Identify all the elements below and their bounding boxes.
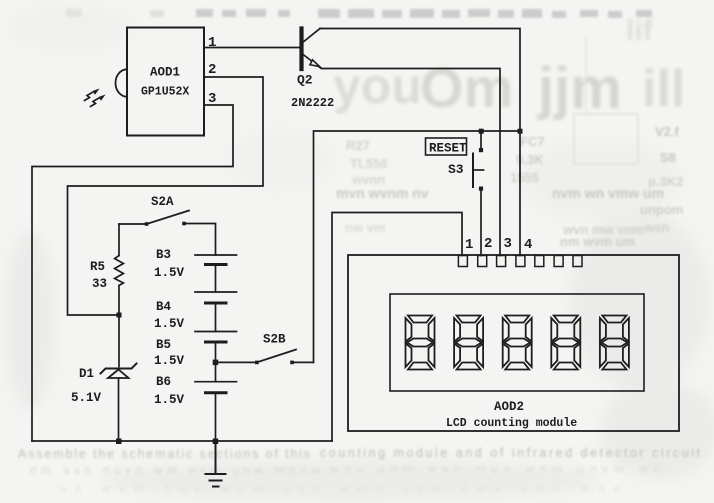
wire pin1 to Q2 base bbox=[204, 47, 300, 49]
LCD pin 5 bbox=[535, 256, 544, 267]
svg-text:LCD counting module: LCD counting module bbox=[446, 417, 577, 430]
svg-text:1.5V: 1.5V bbox=[154, 393, 185, 407]
svg-text:mvn wvnm nv: mvn wvnm nv bbox=[336, 185, 429, 201]
svg-text:wvn mw vnm: wvn mw vnm bbox=[562, 222, 644, 237]
battery B5 bbox=[195, 332, 237, 382]
svg-text:5.1V: 5.1V bbox=[71, 391, 102, 405]
svg-text:1: 1 bbox=[465, 237, 473, 253]
svg-text:R27: R27 bbox=[346, 138, 370, 153]
svg-text:RESET: RESET bbox=[429, 142, 467, 156]
RESET label bbox=[426, 138, 468, 156]
wire S2A to R5 bbox=[118, 224, 120, 256]
7-segment digit 5 bbox=[600, 316, 629, 370]
pin 3 label bbox=[208, 91, 216, 107]
LCD module AOD2 outer box bbox=[348, 255, 679, 431]
svg-text:FC7: FC7 bbox=[520, 134, 545, 149]
svg-text:B5: B5 bbox=[156, 338, 171, 352]
label LCD counting module bbox=[446, 417, 577, 430]
svg-text:3: 3 bbox=[504, 236, 512, 252]
IR receiver module AOD1 body bbox=[116, 28, 205, 136]
svg-text:33: 33 bbox=[92, 277, 107, 291]
svg-text:GP1U52X: GP1U52X bbox=[141, 86, 189, 99]
7-segment digit 1 bbox=[406, 316, 435, 370]
ground symbol bbox=[206, 441, 226, 487]
svg-text:nw vm: nw vm bbox=[345, 220, 385, 235]
svg-text:TL556: TL556 bbox=[350, 156, 388, 171]
7-segment digit 4 bbox=[551, 316, 580, 370]
label B3 1.5V bbox=[154, 248, 185, 280]
LCD pin 1 bbox=[458, 256, 467, 267]
svg-text:unpom: unpom bbox=[640, 202, 683, 217]
wire Q2 emitter to LCD pin 3 bbox=[322, 69, 500, 256]
svg-text:nm asn novn wm nvm unw mnnw: nm asn novn wm nvm unw mnnw bbox=[30, 463, 320, 477]
pin 2 label bbox=[208, 62, 216, 78]
LCD pin 2 bbox=[478, 256, 487, 267]
svg-text:2: 2 bbox=[484, 236, 492, 252]
svg-text:you: you bbox=[333, 58, 422, 114]
svg-text:D1: D1 bbox=[79, 367, 94, 381]
label Q2 2N2222 bbox=[291, 73, 334, 111]
label S3 bbox=[448, 162, 464, 177]
label R5 33 bbox=[90, 260, 107, 291]
ground rail bbox=[32, 440, 332, 442]
label S2A bbox=[151, 195, 174, 209]
svg-text:R5: R5 bbox=[90, 260, 105, 274]
svg-text:1.5V: 1.5V bbox=[154, 354, 185, 368]
wire R5 to node bbox=[118, 286, 120, 316]
LCD pin 6 bbox=[554, 256, 563, 267]
junction battery ground rail bbox=[213, 439, 219, 445]
battery B6 bbox=[195, 382, 237, 441]
switch S2A bbox=[119, 211, 189, 226]
svg-text:2: 2 bbox=[208, 62, 216, 78]
svg-text:B3: B3 bbox=[156, 248, 171, 262]
svg-text:B6: B6 bbox=[156, 375, 171, 389]
svg-text:AOD2: AOD2 bbox=[494, 400, 524, 414]
wire S2A to battery plus bbox=[184, 224, 216, 256]
svg-text:lif: lif bbox=[626, 14, 654, 47]
svg-text:Q2: Q2 bbox=[297, 73, 313, 88]
svg-text:Assemble the schematic section: Assemble the schematic sections of this bbox=[18, 447, 310, 461]
transistor Q2 bbox=[302, 29, 322, 70]
junction node R5/D1/pin2 bbox=[117, 313, 122, 318]
svg-text:ill: ill bbox=[642, 60, 685, 118]
label B4 1.5V bbox=[154, 300, 185, 331]
junction S3 top bbox=[479, 129, 484, 134]
zener diode D1 bbox=[101, 364, 137, 442]
svg-text:B4: B4 bbox=[156, 300, 172, 314]
svg-text:1.5V: 1.5V bbox=[154, 317, 185, 331]
junction D1 ground rail bbox=[116, 439, 122, 445]
switch S2B bbox=[216, 350, 314, 365]
7-segment digit 3 bbox=[503, 316, 532, 370]
svg-text:jjm: jjm bbox=[537, 56, 622, 121]
wire node to D1 bbox=[118, 315, 120, 367]
IR rays icon bbox=[85, 89, 106, 107]
wire S3 to LCD pin 2 bbox=[480, 191, 482, 256]
battery B3 bbox=[195, 255, 237, 292]
wire ground rail to LCD pin 1 bbox=[332, 213, 462, 442]
svg-text:S2A: S2A bbox=[151, 195, 174, 209]
svg-text:wsn: wsn bbox=[643, 220, 669, 235]
svg-text:2N2222: 2N2222 bbox=[291, 96, 334, 110]
pushbutton S3 bbox=[473, 131, 484, 191]
label B5 1.5V bbox=[154, 338, 185, 368]
svg-text:1: 1 bbox=[208, 35, 216, 51]
junction collector net bbox=[518, 129, 523, 134]
7-segment digit 2 bbox=[454, 316, 483, 370]
LCD display window bbox=[390, 294, 644, 391]
wire pin3 to ground rail bbox=[32, 105, 233, 441]
svg-text:S2B: S2B bbox=[263, 333, 286, 347]
label S2B bbox=[263, 333, 286, 347]
svg-text:S8: S8 bbox=[660, 150, 676, 165]
svg-text:1555: 1555 bbox=[510, 170, 539, 185]
svg-text:nvm wn vmw um: nvm wn vmw um bbox=[552, 185, 664, 201]
LCD pin 7 bbox=[573, 256, 582, 267]
battery B4 bbox=[195, 292, 237, 332]
LCD pin 3 bbox=[497, 256, 506, 267]
label B6 1.5V bbox=[154, 375, 185, 407]
wire Q2 collector to LCD pin 4 bbox=[320, 29, 520, 256]
label AOD1 GP1U52X bbox=[141, 66, 189, 99]
wire pin2 to R5/D1 node bbox=[68, 77, 264, 315]
junction battery S2B tap bbox=[213, 360, 219, 366]
pin 1 label bbox=[208, 35, 216, 51]
svg-text:1.5V: 1.5V bbox=[154, 266, 185, 280]
label AOD2 bbox=[494, 400, 524, 414]
svg-text:V2.f: V2.f bbox=[655, 124, 680, 139]
svg-text:S3: S3 bbox=[448, 162, 464, 177]
label D1 5.1V bbox=[71, 367, 102, 405]
svg-text:AOD1: AOD1 bbox=[150, 66, 180, 80]
LCD pin number labels 1 2 3 4 bbox=[465, 236, 532, 253]
LCD pin 4 bbox=[516, 256, 525, 267]
resistor R5 bbox=[115, 256, 124, 286]
net S2B to S3/collector bbox=[314, 131, 521, 362]
svg-text:4: 4 bbox=[524, 237, 532, 253]
